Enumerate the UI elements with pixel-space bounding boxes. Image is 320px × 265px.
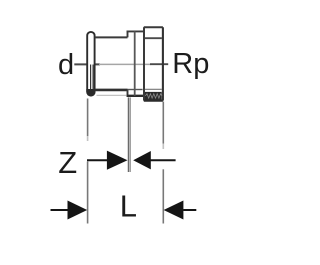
- band top line: [127, 30, 145, 32]
- socket top line: [144, 26, 163, 28]
- dimension Z left tail: [87, 159, 107, 161]
- centerline stub right: [150, 63, 168, 65]
- svg-text:Rp: Rp: [172, 48, 209, 80]
- dimension Z right-pointing arrowhead: [107, 151, 128, 170]
- tube bottom line: [95, 89, 128, 92]
- dimension L right arrowhead: [164, 201, 184, 220]
- centerline stub left (d line): [74, 63, 100, 65]
- extension line right (upper segment, fading): [162, 102, 164, 144]
- dimension L left arrowhead: [68, 201, 88, 220]
- press collar capsule: [87, 32, 94, 96]
- dimension Z left-pointing arrowhead: [133, 151, 151, 169]
- band internal vertical: [134, 31, 136, 95]
- collar bottom dark mass: [86, 89, 95, 97]
- extension line center: [128, 97, 130, 172]
- bore line lower (pipe stop region): [128, 89, 143, 91]
- svg-text:L: L: [120, 189, 137, 224]
- thread band (sectioned female thread): [145, 92, 162, 100]
- tube top line: [95, 36, 128, 38]
- socket bottom line: [144, 99, 163, 101]
- extension line right (lower segment): [162, 169, 164, 223]
- step verticals at band left: [127, 31, 129, 97]
- dimension L right tail: [183, 209, 196, 211]
- extension line left (lower segment): [87, 162, 89, 224]
- band bottom line: [127, 95, 145, 97]
- centerline faint middle segment: [99, 63, 151, 65]
- socket inner bottom faint line: [145, 88, 162, 90]
- socket inner top line: [145, 37, 162, 39]
- dimension L left tail: [51, 209, 69, 211]
- dimension Z right tail: [151, 159, 176, 161]
- socket left boundary vertical: [143, 27, 145, 100]
- faint reflection line under tube: [97, 94, 127, 96]
- svg-text:d: d: [58, 49, 74, 81]
- o-ring section lines: [91, 65, 94, 91]
- socket right face: [162, 27, 164, 100]
- extension line left (upper segment, fading): [87, 99, 89, 137]
- svg-text:Z: Z: [58, 145, 77, 180]
